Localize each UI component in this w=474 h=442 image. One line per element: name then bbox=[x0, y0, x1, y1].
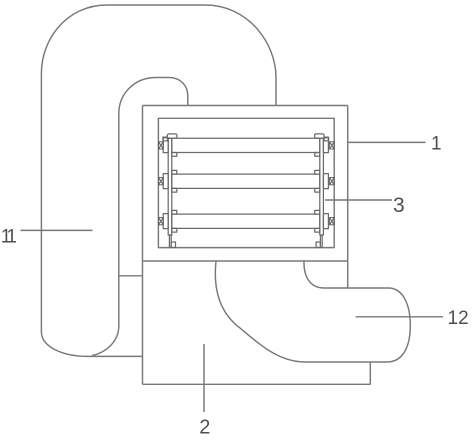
svg-text:2: 2 bbox=[199, 417, 210, 439]
svg-text:11: 11 bbox=[1, 227, 17, 248]
svg-text:12: 12 bbox=[448, 308, 469, 329]
svg-text:1: 1 bbox=[431, 133, 442, 154]
svg-text:3: 3 bbox=[393, 194, 405, 217]
